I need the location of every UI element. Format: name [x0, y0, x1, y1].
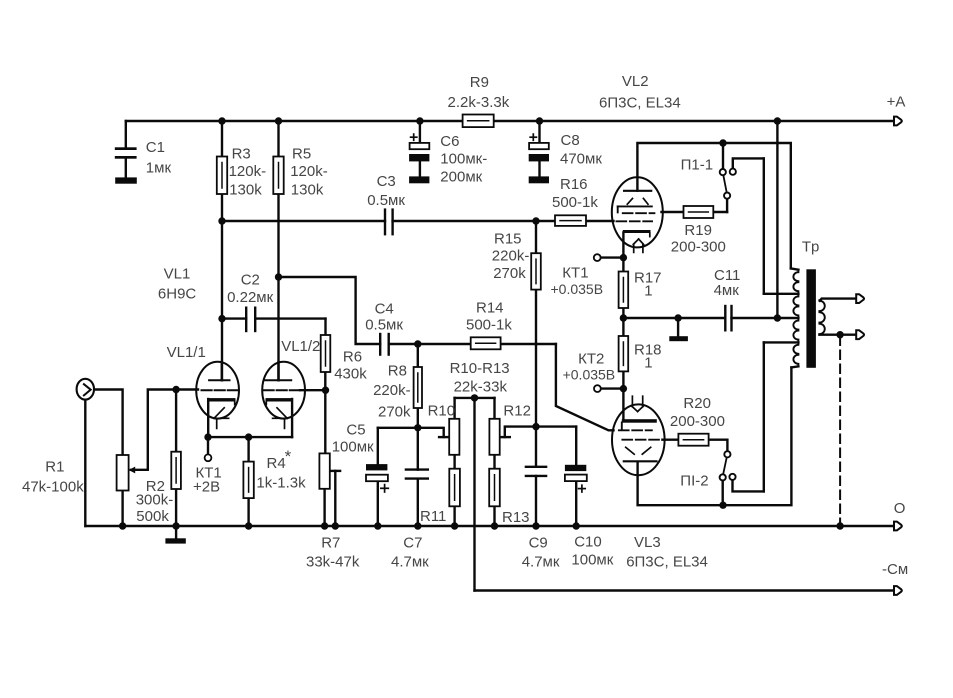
wire secondary bottom lead [819, 334, 856, 336]
svg-text:2.2k-3.3k: 2.2k-3.3k [448, 94, 510, 111]
svg-text:C8: C8 [561, 132, 580, 149]
resistor R12 [489, 419, 499, 455]
svg-text:22k-33k: 22k-33k [454, 379, 508, 396]
svg-text:R3: R3 [232, 145, 251, 162]
capacitor C11 [725, 306, 731, 330]
svg-text:0.5мк: 0.5мк [367, 192, 405, 209]
svg-text:33k-47k: 33k-47k [306, 554, 360, 571]
wire VL1 anode rail to C3 (grid rail y=221) [222, 220, 614, 222]
capacitor C10 [565, 465, 587, 492]
test point KT1 (VL2 cathode) [594, 254, 601, 261]
input jack [77, 379, 94, 400]
svg-text:VL1/2: VL1/2 [281, 338, 320, 355]
terminal -Cm [894, 586, 902, 595]
svg-text:R7: R7 [321, 535, 340, 552]
svg-text:C4: C4 [375, 300, 394, 317]
wire R7 bottom [323, 489, 325, 526]
svg-text:4.7мк: 4.7мк [391, 554, 429, 571]
svg-text:100мк: 100мк [332, 439, 374, 456]
svg-text:C7: C7 [403, 535, 422, 552]
resistor R5 [273, 157, 283, 195]
wire VL2 screen to R19 [662, 211, 684, 213]
wire P1-1 blade [723, 176, 726, 192]
svg-text:R12: R12 [503, 402, 531, 419]
svg-text:100мк-: 100мк- [440, 151, 487, 168]
wire -Cm feed vertical [473, 398, 475, 591]
wire R2 branch [175, 390, 177, 527]
wire R3 branch [221, 121, 223, 380]
ground C1 [115, 177, 137, 183]
svg-text:R14: R14 [476, 300, 504, 317]
wire C7 leads [417, 428, 419, 526]
svg-text:270k: 270k [378, 404, 411, 421]
capacitor C8 [529, 134, 549, 161]
ground C8 [529, 176, 549, 183]
svg-text:+2В: +2В [193, 478, 220, 495]
resistor R2 [171, 452, 181, 489]
svg-text:1k-1.3k: 1k-1.3k [256, 475, 306, 492]
svg-text:R6: R6 [343, 349, 362, 366]
svg-text:1: 1 [644, 282, 652, 299]
resistor R11 [449, 469, 460, 507]
svg-text:1: 1 [644, 354, 652, 371]
test point KT1 (VL1 cathode) [205, 454, 212, 461]
wire +A to centre tap [776, 121, 778, 318]
capacitor C3 [385, 210, 393, 235]
capacitor C4 [380, 334, 389, 355]
svg-text:R8: R8 [388, 362, 407, 379]
wire input to R1 [93, 390, 122, 456]
svg-text:VL3: VL3 [634, 534, 661, 551]
svg-text:КТ1: КТ1 [562, 264, 588, 281]
capacitor C2 [246, 308, 255, 331]
resistor R10 [449, 419, 459, 455]
wire VL1/2 anode to C4 [279, 277, 381, 344]
svg-text:R11: R11 [420, 508, 446, 525]
resistor R15 [531, 253, 541, 289]
svg-text:C9: C9 [529, 535, 548, 552]
resistor R19 [684, 206, 714, 218]
svg-text:120k-: 120k- [229, 163, 267, 180]
wire bottom ground rail [86, 525, 895, 527]
resistor R16 [555, 215, 586, 226]
svg-text:R9: R9 [470, 74, 489, 91]
wire C6 leads [419, 121, 421, 176]
test point KT2 (VL3 cathode) [594, 385, 601, 392]
svg-text:6Н9С: 6Н9С [158, 286, 197, 303]
svg-text:6П3С, EL34: 6П3С, EL34 [626, 554, 708, 571]
terminal speaker top [856, 294, 864, 303]
wire primary screen tap upper [764, 293, 799, 295]
svg-text:270k: 270k [493, 265, 526, 282]
svg-text:C6: C6 [440, 133, 459, 150]
svg-text:C2: C2 [241, 271, 260, 288]
tube VL1 triode VL1/2 [262, 362, 325, 437]
wire VL1 cathodes [208, 436, 292, 438]
wire VL2 cathode chain [622, 233, 624, 337]
wire secondary to ground rail (dashed) [839, 337, 841, 527]
wire secondary top lead [820, 299, 856, 301]
wire C1 leads [125, 121, 127, 177]
svg-text:+0.035В: +0.035В [551, 281, 604, 297]
resistor R9 [463, 115, 494, 128]
svg-text:220k-: 220k- [373, 382, 411, 399]
wire C9 bottom [535, 476, 537, 526]
svg-text:130k: 130k [291, 181, 324, 198]
svg-text:C5: C5 [346, 422, 365, 439]
wire +A top rail [126, 120, 894, 122]
resistor R18 [619, 336, 629, 371]
tube VL3 [612, 396, 665, 475]
wire C5 leads [377, 428, 379, 526]
svg-text:R1: R1 [45, 459, 64, 476]
svg-text:0.22мк: 0.22мк [227, 289, 274, 306]
svg-text:R5: R5 [292, 145, 311, 162]
svg-text:430k: 430k [334, 365, 367, 382]
wire bias network left [378, 428, 449, 437]
svg-text:R19: R19 [684, 222, 712, 239]
svg-text:R10: R10 [428, 402, 456, 419]
switch П1-1 [720, 169, 736, 199]
svg-text:VL1: VL1 [164, 265, 191, 282]
svg-text:500-1k: 500-1k [552, 194, 598, 211]
ground C6 [409, 176, 429, 183]
resistor R8 [414, 367, 422, 408]
svg-text:100мк: 100мк [571, 551, 613, 568]
wire C2 link [222, 317, 326, 319]
svg-text:130k: 130k [229, 181, 262, 198]
svg-text:R20: R20 [683, 395, 711, 412]
wire VL2 anode up and over [637, 143, 790, 268]
svg-text:500-1k: 500-1k [466, 317, 512, 334]
svg-text:R15: R15 [494, 231, 522, 248]
wire P1-2 to anode wire [722, 481, 724, 505]
wire C8 leads [538, 121, 540, 176]
wire R4 bottom [247, 498, 249, 526]
resistor R4 [243, 462, 253, 499]
svg-text:КТ2: КТ2 [578, 351, 604, 368]
capacitor C7 [406, 470, 428, 479]
wire R6 top [324, 319, 326, 335]
wire R1 bottom [121, 491, 123, 527]
wire bias network right [500, 427, 577, 438]
switch ПI-2 [720, 451, 736, 480]
wire -Cm rail [475, 589, 895, 591]
wire KT2 link [601, 387, 624, 389]
svg-text:R10-R13: R10-R13 [450, 360, 510, 377]
capacitor C9 [526, 467, 546, 476]
svg-text:1мк: 1мк [146, 159, 172, 176]
wire VL1/2 grid node [324, 389, 326, 391]
resistor R6 [321, 335, 331, 372]
capacitor C6 [409, 134, 429, 161]
wire R6-R7 link [324, 372, 326, 453]
svg-text:120k-: 120k- [290, 163, 328, 180]
svg-text:VL2: VL2 [622, 73, 649, 90]
svg-text:220k-: 220k- [492, 247, 530, 264]
svg-text:+0.035В: +0.035В [563, 366, 616, 382]
svg-text:П1-1: П1-1 [681, 157, 713, 174]
resistor R20 [678, 434, 708, 446]
wire primary top lead [791, 268, 799, 269]
wire VL3 anode to transformer [638, 367, 792, 505]
wire KT1 link [600, 256, 623, 258]
wire P1-1 to R19 [713, 199, 727, 212]
svg-text:C10: C10 [574, 534, 602, 551]
svg-text:R13: R13 [502, 509, 530, 526]
wire R15 leads [535, 221, 537, 467]
terminal +A [894, 117, 902, 126]
svg-text:Tp: Tp [802, 239, 820, 256]
wire primary bottom lead [791, 366, 798, 367]
svg-text:300k-: 300k- [136, 492, 174, 509]
wire P1-2 bypass [733, 342, 764, 491]
ground cathode return [669, 318, 688, 341]
svg-text:200-300: 200-300 [671, 238, 726, 255]
svg-text:500k: 500k [136, 508, 169, 525]
svg-text:200мк: 200мк [440, 169, 482, 186]
tube VL2 [612, 177, 663, 252]
svg-text:-См: -См [882, 561, 908, 578]
svg-text:*: * [285, 447, 292, 466]
wire R5 branch [277, 121, 279, 380]
resistor R17 [619, 272, 629, 309]
wire KT1 drop [207, 437, 209, 455]
capacitor C1 [115, 147, 137, 158]
transformer Tp [793, 269, 824, 368]
svg-text:O: O [894, 500, 906, 517]
wire cathode return y=318 [623, 317, 798, 319]
wire P1-1 bypass [733, 158, 764, 293]
wire R8 leads [417, 344, 419, 428]
resistor R13 [489, 469, 500, 507]
wire R20 to P1-2 [709, 440, 728, 451]
wire P1-2 blade [723, 458, 726, 474]
wire R1 wiper to grid [129, 390, 198, 474]
wire R7 tap [330, 471, 340, 526]
svg-text:C3: C3 [377, 173, 396, 190]
svg-text:47k-100k: 47k-100k [22, 479, 84, 496]
wire R10 leads [453, 398, 455, 469]
svg-text:C1: C1 [146, 139, 165, 156]
svg-text:ПI-2: ПI-2 [680, 473, 708, 490]
svg-text:4мк: 4мк [714, 282, 740, 299]
wire VL3 screen to R20 [662, 439, 678, 441]
wire input jack ground drop [84, 399, 86, 526]
svg-text:0.5мк: 0.5мк [365, 317, 403, 334]
svg-text:+A: +A [887, 94, 906, 111]
resistor R3 [217, 157, 227, 195]
resistor R14 [471, 337, 501, 349]
resistor R1 [117, 455, 129, 491]
svg-text:4.7мк: 4.7мк [522, 554, 560, 571]
wire C4 to R14 to VL3 grid [389, 344, 614, 430]
wire R12 leads [493, 398, 495, 469]
svg-text:6П3С, EL34: 6П3С, EL34 [599, 95, 681, 112]
resistor R7 [319, 453, 329, 488]
wire C10 leads [575, 427, 577, 526]
terminal speaker bottom [856, 330, 864, 339]
svg-text:R4: R4 [267, 455, 286, 472]
svg-text:VL1/1: VL1/1 [167, 344, 206, 361]
capacitor C5 [366, 464, 388, 492]
terminal O [894, 522, 902, 531]
wire switch P1-1 drop [722, 143, 724, 169]
tube VL1 triode VL1/1 [196, 362, 239, 437]
wire R4 top [247, 437, 249, 462]
svg-text:200-300: 200-300 [670, 413, 725, 430]
wire R13 bottom [493, 506, 495, 526]
wire R18 to VL3 cathode [622, 371, 624, 420]
wire R11 bottom [453, 506, 455, 526]
svg-text:470мк: 470мк [560, 150, 602, 167]
wire primary screen tap lower [764, 341, 799, 343]
wire R10-R13 top [455, 397, 495, 399]
svg-text:R16: R16 [560, 176, 588, 193]
ground R2 [165, 526, 185, 544]
